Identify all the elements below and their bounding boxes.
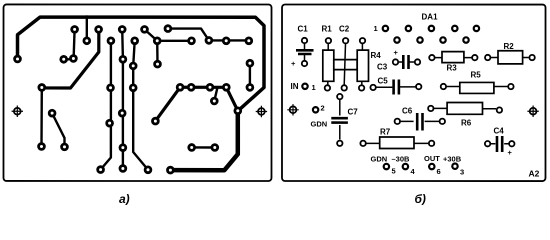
medium trace from pad98: [43, 29, 99, 88]
fiducial left panel east: [256, 106, 267, 117]
thick trace main bus: [17, 17, 264, 111]
svg-text:–30В: –30В: [391, 155, 410, 164]
wire col157: [156, 41, 159, 64]
svg-text:C1: C1: [298, 25, 309, 34]
svg-text:C4: C4: [493, 127, 504, 136]
wire col74: [74, 29, 75, 58]
wire dumbbell v250: [249, 63, 251, 87]
svg-text:C2: C2: [339, 25, 350, 34]
svg-text:C3: C3: [377, 63, 388, 72]
svg-text:C5: C5: [378, 77, 389, 86]
svg-text:+: +: [291, 59, 296, 68]
input pad: [302, 84, 307, 89]
pad 4: [403, 164, 416, 176]
board outline panel a: [3, 4, 271, 181]
wire diag52-64: [52, 113, 64, 147]
capacitor C7: [331, 94, 348, 146]
wire diag144-157: [145, 29, 158, 40]
board outline panel b: [282, 5, 546, 182]
resistor R6: [428, 103, 502, 115]
pads row169: [98, 166, 174, 173]
transistor column right of C2: [357, 38, 368, 91]
wire pad167 run: [168, 29, 249, 41]
wire col134: [133, 41, 148, 170]
pads mid: [49, 98, 241, 126]
wire row40 a: [157, 40, 191, 42]
pad 5: [384, 164, 396, 176]
svg-text:+: +: [394, 48, 399, 57]
node pad 2: [313, 107, 318, 112]
capacitor C4: [485, 136, 515, 152]
svg-text:R4: R4: [371, 51, 382, 60]
jumper C2: [342, 38, 349, 91]
svg-text:OUT: OUT: [424, 154, 440, 163]
fiducial right panel east: [527, 106, 538, 117]
pad bus end: [15, 56, 21, 62]
svg-text:R3: R3: [447, 64, 458, 73]
pads row147: [39, 144, 218, 151]
svg-text:б): б): [414, 192, 425, 205]
DA1 pads lower row: [394, 37, 468, 42]
resistor R1: [323, 38, 334, 91]
resistor R4 body: [334, 60, 357, 70]
fiducial right panel west: [287, 104, 298, 115]
svg-text:+: +: [507, 148, 512, 157]
svg-text:R7: R7: [380, 128, 391, 137]
svg-text:5: 5: [391, 167, 395, 176]
svg-text:R5: R5: [471, 71, 482, 80]
capacitor C1: [296, 38, 314, 66]
svg-text:R6: R6: [461, 119, 472, 128]
svg-text:R1: R1: [322, 25, 333, 34]
svg-text:C7: C7: [347, 108, 358, 117]
trace chain y87: [155, 87, 237, 121]
svg-text:IN: IN: [291, 82, 299, 91]
capacitor C5: [370, 80, 421, 95]
svg-text:2: 2: [320, 104, 324, 113]
wire col41: [40, 87, 43, 146]
resistor R3: [429, 52, 477, 63]
pads dumbbell250: [247, 60, 253, 90]
wire stub pad86 to bus: [86, 16, 88, 40]
pads row29: [72, 26, 171, 33]
svg-text:1: 1: [312, 83, 316, 92]
resistor R2: [485, 51, 535, 64]
svg-text:GDN: GDN: [310, 120, 327, 129]
svg-text:+30В: +30В: [443, 155, 462, 164]
wire pair59: [64, 58, 74, 60]
thick trace lower run: [170, 111, 237, 170]
pad 6: [429, 164, 441, 176]
svg-text:а): а): [119, 192, 130, 205]
wire dumbbell h147: [192, 146, 215, 148]
capacitor C3: [393, 55, 420, 69]
pads row59: [61, 56, 161, 69]
resistor R5: [441, 82, 514, 93]
capacitor C6: [395, 113, 445, 131]
wire stub214: [214, 87, 217, 101]
svg-text:3: 3: [460, 168, 464, 177]
svg-text:R2: R2: [504, 42, 515, 51]
wire col123 main: [122, 59, 124, 168]
svg-text:1: 1: [374, 24, 378, 33]
svg-text:DA1: DA1: [422, 13, 439, 22]
wire col111: [101, 41, 111, 170]
DA1 pads upper row: [383, 26, 479, 31]
svg-text:6: 6: [436, 167, 440, 176]
svg-text:GDN: GDN: [370, 155, 387, 164]
wire col123 top: [121, 29, 124, 59]
pads row40: [84, 37, 252, 43]
svg-text:C6: C6: [402, 107, 413, 116]
pads row87: [39, 84, 229, 90]
resistor R7: [360, 137, 434, 149]
svg-text:A2: A2: [528, 169, 539, 179]
fiducial left panel west: [12, 106, 23, 117]
pad 3: [452, 164, 464, 177]
